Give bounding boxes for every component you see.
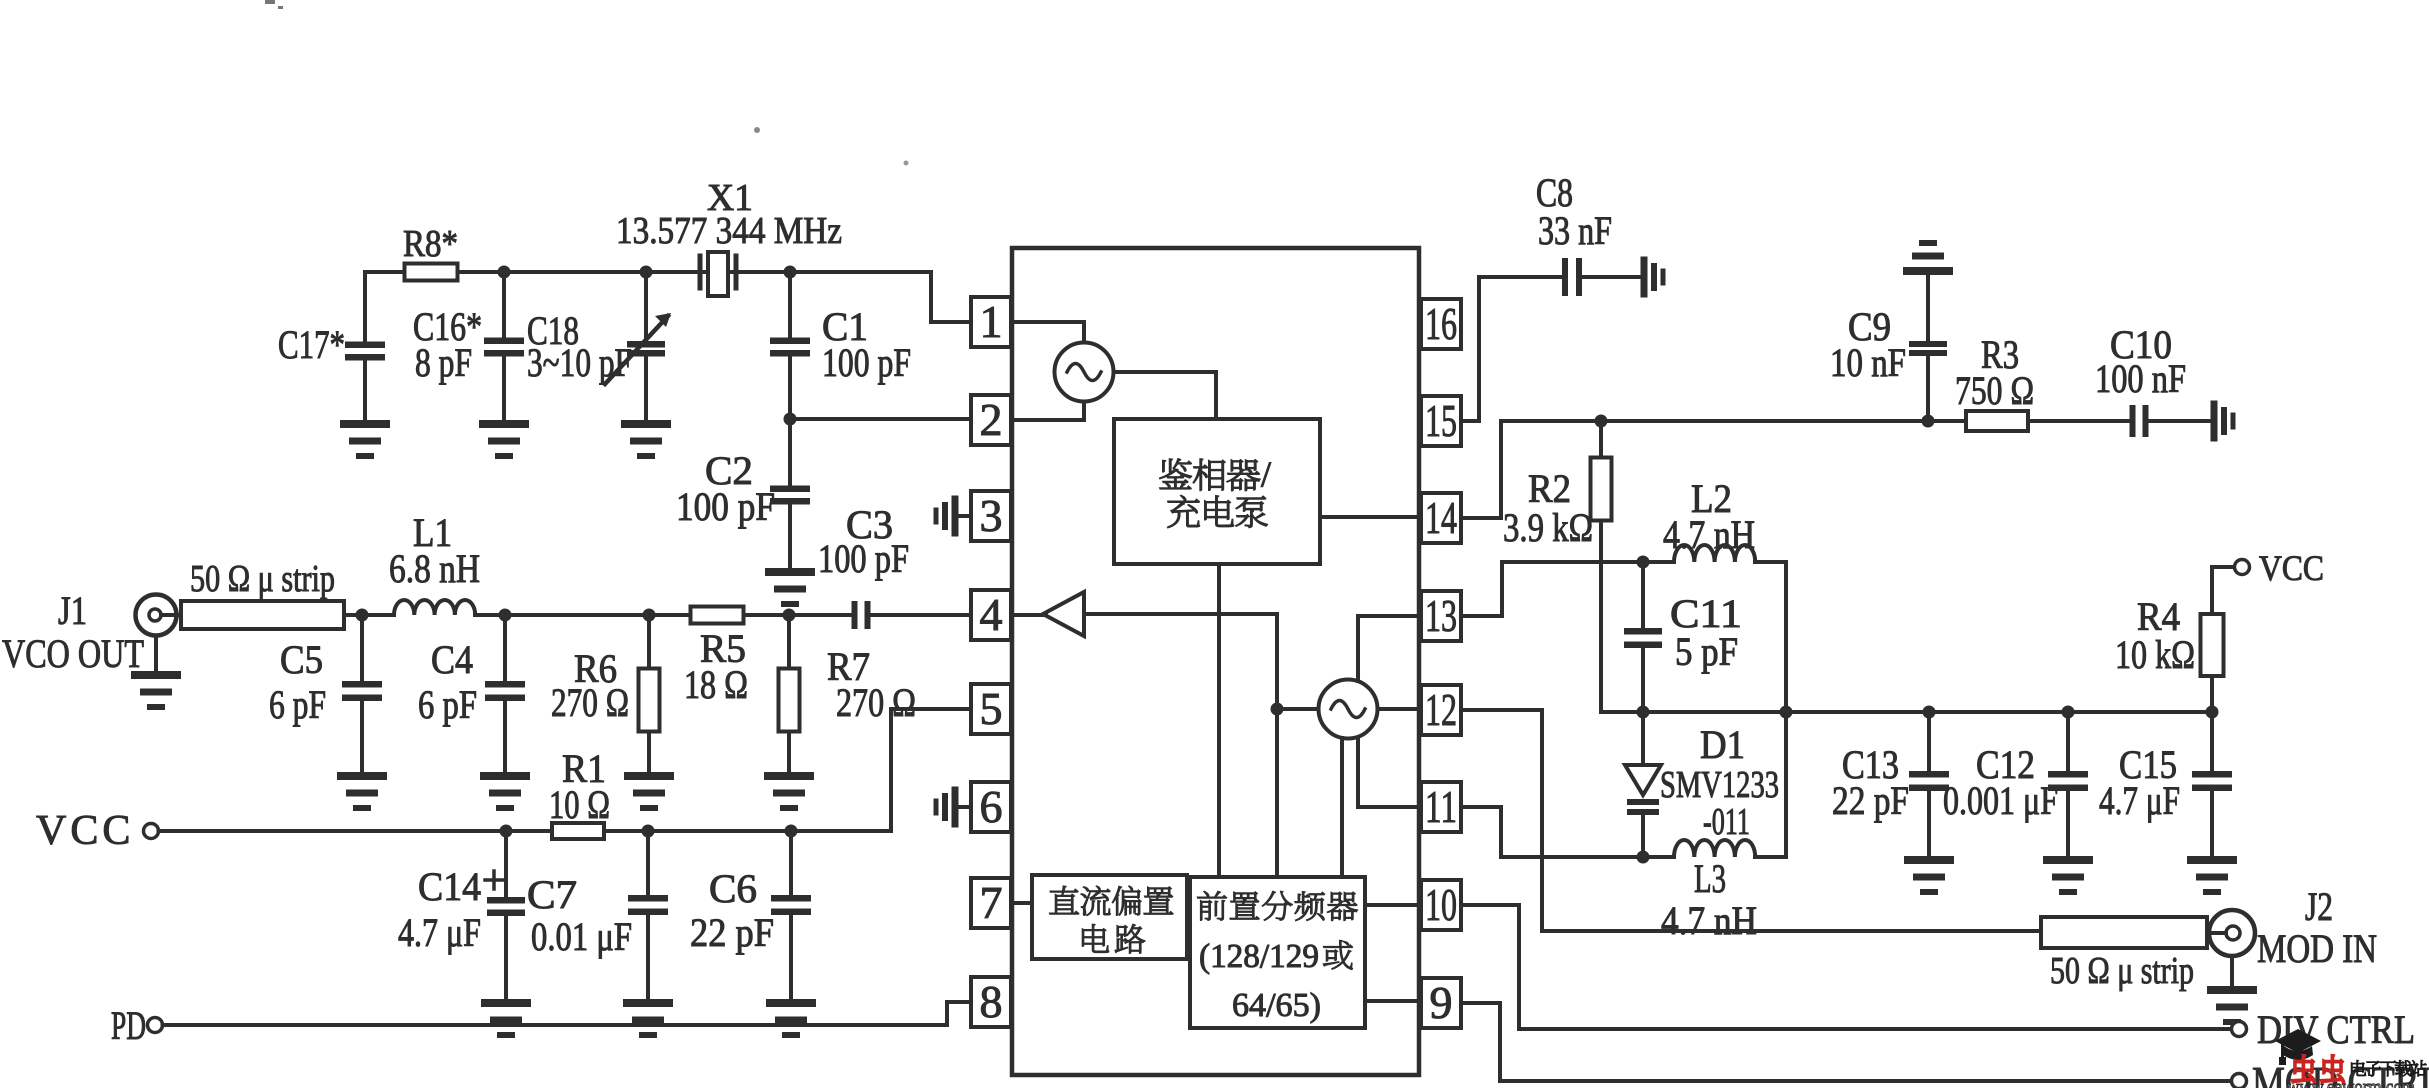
svg-text:4.7 μF: 4.7 μF [398,910,481,955]
terminal VCC left [144,824,159,839]
svg-text:VCO OUT: VCO OUT [2,631,144,676]
svg-text:64/65): 64/65) [1232,987,1321,1024]
wire oscillator U1a to phase detector box [1114,372,1217,417]
svg-text:0.01 μF: 0.01 μF [531,914,632,959]
wire oscillator U1d to prescaler [1340,738,1344,875]
svg-text:270 Ω: 270 Ω [551,680,629,725]
junction C15 / R4 [2206,706,2219,719]
svg-text:C5: C5 [280,637,323,682]
wire oscillator U1d to pin12 [1378,707,1422,711]
svg-text:www.eeworm.com: www.eeworm.com [2287,1074,2415,1088]
wire junction to C18 [504,270,646,274]
svg-text:50 Ω μ strip: 50 Ω μ strip [190,558,335,600]
svg-text:3: 3 [980,490,1003,541]
svg-text:13: 13 [1425,590,1457,641]
crystal X1 [700,252,736,296]
junction R5 / R7 [783,609,796,622]
capacitor C7 [628,831,668,999]
wire R2 bottom to node [1601,710,1643,714]
svg-text:C14: C14 [418,864,481,909]
resistor R5 [649,607,789,624]
junction C13 [1923,706,1936,719]
svg-text:-011: -011 [1703,801,1750,843]
wire pin12 to J2 strip [1461,710,2041,931]
svg-text:J2: J2 [2305,884,2333,929]
svg-text:1: 1 [980,296,1003,347]
svg-text:2: 2 [980,394,1003,445]
svg-text:5 pF: 5 pF [1675,629,1738,674]
svg-text:3~10 pF: 3~10 pF [527,340,632,385]
ground C6 [770,1003,812,1035]
capacitor C11 [1624,562,1662,712]
junction R8 / C16 [498,266,511,279]
junction C12 [2062,706,2075,719]
IC U1 body [1012,248,1419,1075]
pin 5 box [971,683,1011,734]
pin 11 box [1421,781,1461,832]
wire prescaler to pin9 [1365,999,1421,1003]
svg-text:C17*: C17* [278,322,345,367]
wire pin9 to MOD CTRL [1461,1003,2231,1081]
ground C7 [627,1003,669,1035]
wire J1 stem [154,636,158,672]
junction C6 [785,825,798,838]
pin 10 box [1421,879,1461,930]
pin 6 box [971,781,1011,832]
pin 2 box [971,394,1011,445]
resistor R3 [1966,411,2028,431]
wire X1 to pin1 [736,272,971,322]
svg-text:10: 10 [1425,879,1457,930]
ground C9 [1907,243,1949,271]
oscillator U1d (VCO) [1319,680,1378,739]
svg-text:MOD IN: MOD IN [2257,926,2377,971]
ground R7 [768,776,810,808]
ground C2 [769,572,811,604]
pin 4 box [971,589,1011,640]
wire pin2 to oscillator U1a [1011,401,1084,420]
capacitor C4 [485,615,525,772]
wire pin4 to amplifier [1011,613,1046,617]
ground pin3 [936,499,955,533]
label 或 (or) [1323,940,1352,969]
wire C18 junction to X1 [646,270,698,274]
capacitor C14 (polarized) [485,831,525,999]
junction C11 top [1637,556,1650,569]
pin 16 box [1421,298,1461,349]
pin 8 box [971,976,1011,1027]
junction strip / C5 [356,609,369,622]
capacitor C3 [789,601,971,629]
inductor L2 [1674,545,1755,562]
DC bias circuit box U1e [1032,875,1187,959]
wire pin11 to L3 line [1461,807,1674,857]
ground C13 [1908,860,1950,892]
junction C11 / D1 / R2 [1637,706,1650,719]
terminal MOD CTRL [2232,1074,2247,1088]
svg-text:C4: C4 [431,637,473,682]
wire L3 to right rail [1755,855,1786,859]
wire phase detector to pin14 [1320,515,1421,519]
capacitor C17 [345,272,385,420]
ground C12 [2047,860,2089,892]
svg-text:9: 9 [1430,977,1453,1028]
wire L2 to right rail [1755,562,1786,857]
scan speck right of crystal [904,161,909,166]
wire L1 to C4 node [475,613,649,617]
wire prescaler to pin10 [1365,903,1421,907]
svg-text:L3: L3 [1694,856,1726,901]
pin 3 box [971,490,1011,541]
ground pin6 [936,790,955,824]
resistor R7 [779,615,800,772]
ground C8 [1644,260,1663,294]
wire phase detector bottom to prescaler [1217,564,1221,875]
junction X1 line / C1 [784,266,797,279]
wire pin6 ground [955,805,971,809]
junction amp output / oscillator U1d [1271,703,1284,716]
phase detector / charge pump box U1b [1114,419,1320,564]
pin 12 box [1421,684,1461,735]
wire junction to oscillator U1d [1277,707,1319,711]
junction L1 / C4 [499,609,512,622]
svg-text:10 Ω: 10 Ω [549,782,610,827]
resistor R4 [2201,567,2224,712]
svg-text:5: 5 [980,683,1003,734]
svg-text:18 Ω: 18 Ω [684,662,748,707]
ground R6 [628,776,670,808]
resistor R1 [552,823,604,839]
trimmer capacitor C18 [605,272,671,420]
svg-text:SMV1233: SMV1233 [1660,764,1779,806]
wire R1 to pin5 riser [604,709,971,831]
svg-text:4: 4 [980,589,1003,640]
watermark graduation cap logo [2275,1029,2321,1065]
ground C15 [2191,860,2233,892]
svg-text:C7: C7 [527,872,577,917]
svg-text:8: 8 [980,976,1003,1027]
capacitor C2 [770,419,810,568]
wire amplifier output [1084,614,1277,875]
oscillator U1a (crystal osc) [1055,343,1114,402]
svg-text:100 pF: 100 pF [822,340,911,385]
inductor L3 [1674,840,1755,857]
watermark 虫虫 second (red) [2321,1055,2344,1083]
svg-text:11: 11 [1425,781,1457,832]
microstrip 50ohm J2 side [2041,917,2207,948]
label 充电泵 (charge pump) [1168,495,1268,527]
pin 15 box [1421,395,1461,446]
wire pin7 to DC bias box [1011,901,1032,905]
svg-text:C6: C6 [709,866,757,911]
buffer amplifier U1c [1043,592,1084,636]
svg-text:33 nF: 33 nF [1538,208,1612,253]
svg-text:50 Ω μ strip: 50 Ω μ strip [2050,950,2194,992]
svg-text:270 Ω: 270 Ω [836,680,916,725]
ground C16 [483,424,525,456]
ground J2 [2211,990,2253,1022]
wire pin13 to L2 line [1461,562,1674,616]
svg-text:6 pF: 6 pF [269,682,326,727]
inductor L1 [394,600,475,615]
svg-text:6.8 nH: 6.8 nH [389,546,480,591]
svg-text:4.7 nH: 4.7 nH [1661,898,1757,943]
ground C18 [625,424,667,456]
wire C17 top corner [365,272,405,342]
resistor R8 [365,264,504,281]
svg-text:15: 15 [1425,395,1457,446]
junction R1 / C7 [642,825,655,838]
terminal DIV CTRL [2232,1022,2247,1037]
wire pin15 to C8 [1461,277,1563,421]
wire pin10 to DIV CTRL [1461,905,2231,1029]
capacitor C5 [342,615,382,772]
svg-text:VCC: VCC [36,808,134,854]
svg-text:12: 12 [1425,684,1457,735]
scan speck near crystal [754,127,760,133]
ground C4 [484,776,526,808]
prescaler box U1f [1190,877,1365,1028]
watermark 虫虫 (red) [2292,1055,2315,1083]
pin 13 box [1421,590,1461,641]
svg-text:R8*: R8* [403,223,458,265]
wire strip to L1 [344,613,394,617]
svg-text:D1: D1 [1700,722,1745,767]
capacitor C9 [1909,273,1947,421]
svg-text:6: 6 [980,781,1003,832]
pin 14 box [1421,492,1461,543]
resistor R2 [1591,421,1612,712]
svg-text:/: / [1261,454,1271,494]
svg-text:22 pF: 22 pF [1832,778,1909,823]
junction D1 / L3 [1637,851,1650,864]
wire pin13 to oscillator U1d top [1358,616,1419,681]
connector J2 [2207,910,2255,956]
ground C10 [2214,404,2233,438]
terminal PD [148,1018,163,1033]
svg-text:16: 16 [1425,298,1457,349]
capacitor C6 [771,831,811,999]
wire pin14 riser [1461,421,1966,518]
terminal VCC right [2235,560,2250,575]
capacitor C12 [2048,712,2088,856]
svg-text:750 Ω: 750 Ω [1955,368,2034,413]
ground C17 [344,424,386,456]
wire pin1 to oscillator U1a [1011,322,1084,343]
wire pin11 to oscillator U1d bottom [1358,738,1419,807]
junction C1 / C2 / pin2 [784,413,797,426]
capacitor C8 [1562,258,1644,296]
svg-text:100 pF: 100 pF [676,484,775,529]
svg-text:100 nF: 100 nF [2095,356,2186,401]
svg-text:0.001 μF: 0.001 μF [1943,778,2058,823]
svg-text:10 kΩ: 10 kΩ [2115,632,2195,677]
svg-text:13.577 344 MHz: 13.577 344 MHz [616,210,842,252]
svg-text:4.7 μF: 4.7 μF [2099,778,2180,823]
svg-text:10 nF: 10 nF [1830,340,1906,385]
svg-text:7: 7 [980,877,1003,928]
svg-text:(128/129: (128/129 [1199,938,1319,975]
wire R4 to VCC [2212,565,2234,569]
svg-text:8 pF: 8 pF [415,340,472,385]
connector J1 [136,595,182,636]
junction VCC / C14 [500,825,513,838]
microstrip 50ohm J1 side [181,601,344,629]
capacitor C15 [2192,712,2232,856]
svg-text:100 pF: 100 pF [818,536,909,581]
wire VCC to R1 [159,829,553,833]
pin 1 box [971,296,1011,347]
watermark 电子下载站 [2351,1060,2426,1076]
svg-text:J1: J1 [58,588,87,633]
wire varactor node line [1643,710,2212,714]
varactor diode D1 [1625,712,1661,857]
label 电路 (circuit) [1082,924,1145,953]
wire J2 stem [2230,956,2234,986]
junction R6 [643,609,656,622]
junction C18 / X1 [640,266,653,279]
svg-text:22 pF: 22 pF [690,910,774,955]
label 鉴相器 (phase detector) [1160,459,1260,491]
ground J1 [135,675,177,707]
svg-text:14: 14 [1425,492,1457,543]
wire PD to pin8 [163,1002,972,1025]
capacitor C10 [2028,405,2214,437]
svg-text:4.7 nH: 4.7 nH [1663,512,1755,557]
svg-text:3.9 kΩ: 3.9 kΩ [1503,505,1593,550]
capacitor C1 [770,272,810,419]
capacitor C13 [1909,712,1949,856]
ground C5 [341,776,383,808]
svg-text:DIV CTRL: DIV CTRL [2257,1007,2415,1052]
resistor R6 [639,615,660,772]
junction C9 [1922,415,1935,428]
label 前置分频器 (prescaler) [1197,891,1357,921]
svg-text:VCC: VCC [2259,548,2324,588]
pin 9 box [1421,977,1461,1028]
wire junction to pin2 [790,417,971,421]
wire pin3 ground [955,514,971,518]
svg-text:6 pF: 6 pF [418,682,477,727]
scan speck top-left [265,0,283,9]
capacitor C16 [484,272,524,420]
svg-text:PD: PD [111,1003,146,1048]
label 直流偏置 (DC bias) [1050,886,1173,916]
junction right rail node [1780,706,1793,719]
pin 7 box [971,877,1011,928]
ground C14 [485,1003,527,1035]
junction R2 top [1595,415,1608,428]
